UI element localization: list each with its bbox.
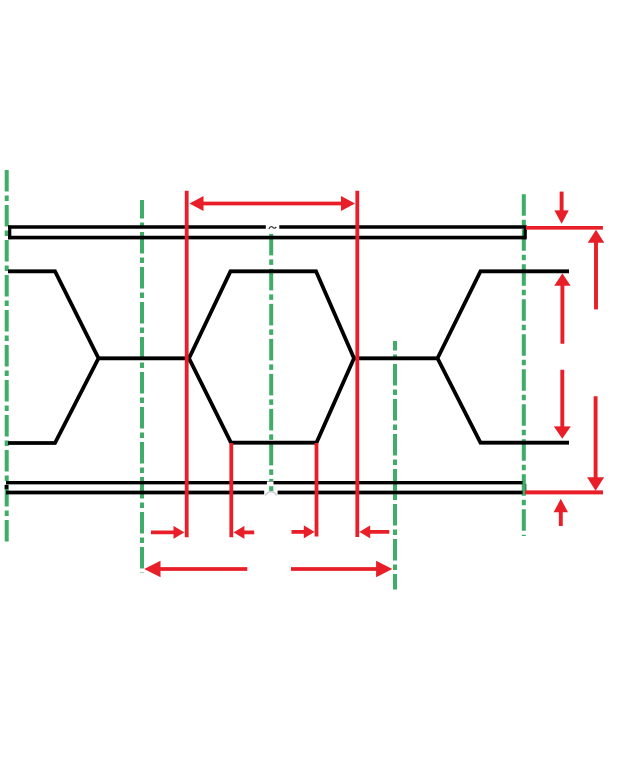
web mid line between central and right openings [354, 356, 438, 360]
up arrow UA3 onto bottom level line [554, 499, 568, 526]
small arrow A3 pointing right at V4 [292, 525, 315, 538]
opening height dimension upper arrow UA2 [554, 273, 570, 343]
centerline G3 (central hexagon axis) [269, 234, 273, 492]
bottom flange left end cap [5, 485, 9, 489]
overall height dimension lower arrow [587, 396, 604, 490]
centerline G2 (web post axis) [140, 200, 144, 573]
top flange top line [8, 225, 526, 228]
top flange bottom line [8, 236, 526, 240]
red extension line V1 (left of central opening) [185, 191, 189, 538]
small arrow A2 pointing left at V3 [234, 526, 255, 539]
top flange left end cap [8, 225, 11, 239]
right half hexagon opening lower edge [438, 358, 570, 442]
centerline G5 (right hexagon axis) [522, 194, 526, 536]
red level line at bottom of beam (right side) [525, 490, 603, 494]
bottom flange top line [6, 481, 523, 484]
break mark on bottom flange [264, 481, 277, 496]
small arrow A1 pointing right at V1 [151, 526, 184, 539]
overall height dimension upper arrow UA1 [588, 230, 605, 310]
central hexagon opening [189, 271, 354, 442]
small arrow A4 pointing left at V2 [359, 525, 389, 538]
right half hexagon opening upper edge [438, 271, 570, 358]
bottom flange bottom line [6, 491, 523, 495]
left half hexagon opening [8, 271, 99, 443]
break mark on top flange [266, 222, 280, 232]
red level line at top of beam (right side) [526, 226, 603, 230]
bottom flange right end cap [523, 484, 526, 492]
web mid line between left and central openings [99, 356, 190, 360]
top width dimension line with two arrowheads [190, 196, 356, 211]
red extension line V4 (bottom-right corner of opening) [315, 443, 319, 537]
top flange right end cap [524, 225, 527, 239]
red extension line V3 (bottom-left corner of opening) [229, 443, 233, 537]
centerline G4 (web post axis) [393, 341, 397, 590]
bottom pitch dimension, right half with arrowhead on G4 [291, 561, 392, 577]
red extension line V2 (right of central opening) [355, 191, 359, 537]
centerline G1 (left hexagon axis) [5, 170, 9, 544]
opening height dimension lower arrow DA2 [554, 370, 571, 439]
bottom pitch dimension, left half with arrowhead on G2 [144, 561, 247, 577]
down arrow DA1 onto top level line [554, 192, 568, 224]
